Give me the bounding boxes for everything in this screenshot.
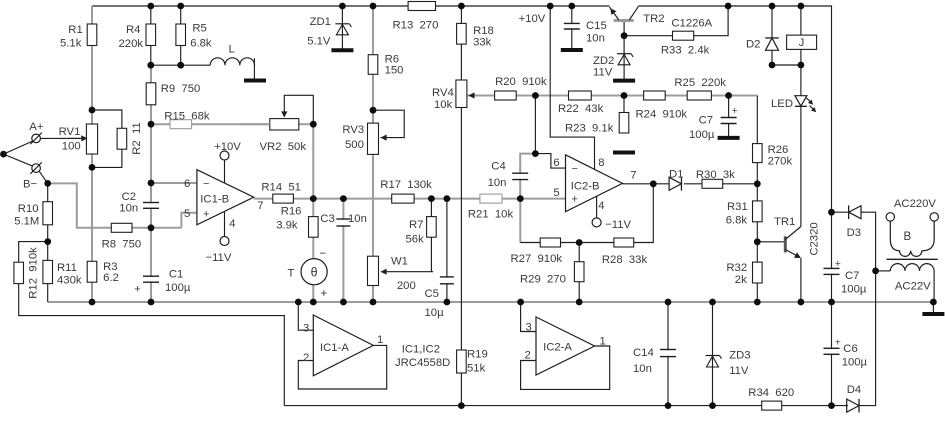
svg-text:33k: 33k bbox=[473, 37, 492, 49]
svg-text:51k: 51k bbox=[467, 363, 486, 375]
svg-text:3: 3 bbox=[526, 322, 532, 334]
resistor R23 bbox=[565, 113, 629, 135]
resistor R2 bbox=[117, 128, 127, 149]
resistor R24 bbox=[636, 91, 688, 121]
svg-text:+: + bbox=[835, 258, 841, 270]
potentiometer W1 bbox=[368, 256, 379, 285]
wire analog ground row bbox=[48, 301, 934, 303]
capacitor C3 bbox=[335, 220, 351, 225]
svg-text:R23 9.1k: R23 9.1k bbox=[565, 123, 614, 135]
wire B- to node bbox=[39, 171, 48, 183]
wire probe B- bbox=[4, 154, 33, 166]
wire D1/R30 row bbox=[684, 183, 702, 185]
svg-text:430k: 430k bbox=[57, 275, 82, 287]
svg-text:A+: A+ bbox=[29, 121, 44, 133]
svg-text:T: T bbox=[288, 268, 295, 280]
resistor R19 bbox=[457, 349, 488, 375]
wire right bus below D3 node bbox=[831, 212, 833, 302]
wire ZD3 stub bbox=[712, 302, 714, 406]
svg-text:C14: C14 bbox=[633, 347, 654, 359]
diode D1 bbox=[669, 177, 681, 190]
potentiometer RV3 bbox=[368, 123, 379, 154]
ground ZD2 bbox=[613, 79, 635, 83]
wire bottom return rail bbox=[284, 405, 848, 407]
resistor R20 bbox=[495, 76, 547, 100]
capacitor C14 bbox=[659, 350, 677, 356]
resistor R8 bbox=[102, 223, 142, 250]
svg-text:2k: 2k bbox=[735, 274, 747, 286]
wire B- to R8 elbow bbox=[48, 183, 151, 227]
svg-text:R34 620: R34 620 bbox=[748, 387, 794, 399]
svg-text:VR2 50k: VR2 50k bbox=[260, 141, 307, 153]
junction D2/J bbox=[769, 62, 776, 69]
potentiometer VR2 bbox=[270, 119, 299, 130]
svg-text:6.8k: 6.8k bbox=[190, 38, 212, 50]
op-amp IC2-A bbox=[536, 317, 595, 375]
resistor R1 bbox=[60, 24, 97, 50]
svg-text:6.8k: 6.8k bbox=[726, 215, 748, 227]
svg-text:10n: 10n bbox=[119, 203, 138, 215]
svg-text:R10: R10 bbox=[18, 203, 39, 215]
svg-text:1: 1 bbox=[377, 334, 383, 346]
svg-text:5.1V: 5.1V bbox=[307, 36, 331, 48]
capacitor C4 bbox=[511, 174, 529, 179]
svg-text:D2: D2 bbox=[746, 39, 760, 51]
terminal A+ bbox=[32, 134, 41, 143]
resistor R14 bbox=[261, 181, 301, 203]
wire pin3 IC1-A bbox=[298, 302, 313, 330]
wire R27/R28 feedback row bbox=[520, 242, 540, 244]
wire VR2 wiper tie bbox=[284, 95, 313, 124]
wire LED to TR1 collector bbox=[800, 107, 802, 227]
svg-text:R18: R18 bbox=[473, 25, 494, 37]
wire R9/C2/C1 rail bbox=[150, 65, 152, 302]
svg-text:AC220V: AC220V bbox=[894, 198, 937, 210]
svg-text:200: 200 bbox=[397, 280, 416, 292]
wire R29 stub bbox=[578, 243, 580, 303]
ground C15 bbox=[561, 48, 583, 52]
wire C5 stub bbox=[446, 199, 448, 302]
svg-text:C2320: C2320 bbox=[809, 222, 821, 255]
svg-text:−11V: −11V bbox=[605, 219, 631, 231]
resistor R29 bbox=[520, 262, 584, 286]
wire C4/R21 riser bbox=[519, 199, 521, 243]
diode D3 bbox=[849, 206, 861, 219]
ground transformer bbox=[922, 312, 944, 316]
svg-text:6: 6 bbox=[553, 157, 559, 169]
svg-text:270k: 270k bbox=[768, 156, 793, 168]
svg-text:B−: B− bbox=[23, 179, 38, 191]
wire R4/R5/L node row bbox=[150, 6, 152, 65]
svg-text:R17 130k: R17 130k bbox=[380, 179, 432, 191]
junction D3 node bbox=[828, 209, 835, 216]
resistor R17 bbox=[380, 179, 432, 203]
svg-text:−: − bbox=[572, 163, 578, 175]
junctions signal row bbox=[310, 195, 317, 202]
resistor R7 bbox=[406, 217, 437, 246]
svg-text:100µ: 100µ bbox=[842, 357, 868, 369]
svg-text:R30 3k: R30 3k bbox=[696, 169, 735, 181]
op-amp IC1-A bbox=[313, 315, 373, 376]
wire R33 row bbox=[624, 35, 672, 37]
wire pin2/feedback IC2-A bbox=[521, 346, 610, 389]
wire right bus C6 column bbox=[831, 302, 833, 406]
svg-text:−: − bbox=[320, 248, 327, 260]
resistor R4 bbox=[119, 24, 156, 50]
wire pin6 row IC1-B bbox=[151, 182, 197, 184]
wire set-point row R20..R25 bbox=[467, 95, 757, 97]
svg-text:R9 750: R9 750 bbox=[161, 83, 201, 95]
svg-text:5: 5 bbox=[553, 187, 559, 199]
svg-text:TR1: TR1 bbox=[774, 216, 795, 228]
svg-text:θ: θ bbox=[311, 266, 318, 280]
svg-text:C7: C7 bbox=[845, 270, 859, 282]
capacitor C1 bbox=[142, 277, 160, 281]
wire TR1 base bbox=[757, 241, 784, 243]
svg-text:+: + bbox=[134, 284, 140, 296]
svg-text:+: + bbox=[732, 105, 738, 117]
transformer core bbox=[887, 258, 938, 260]
resistor R13 bbox=[393, 2, 439, 32]
diode D4 bbox=[847, 399, 859, 412]
diode D2 bbox=[766, 38, 779, 50]
capacitor C7 reference bbox=[720, 118, 738, 122]
svg-text:R25 220k: R25 220k bbox=[674, 77, 726, 89]
wire probe A+ bbox=[4, 141, 33, 154]
svg-text:4: 4 bbox=[598, 200, 604, 212]
svg-text:R4: R4 bbox=[126, 24, 140, 36]
junction pin6 node IC2-B bbox=[532, 150, 539, 157]
svg-text:W1: W1 bbox=[391, 256, 408, 268]
svg-text:R33 2.4k: R33 2.4k bbox=[661, 45, 710, 57]
node TR1 base bbox=[754, 238, 761, 245]
svg-text:R27 910k: R27 910k bbox=[511, 253, 563, 265]
junctions setpoint row bbox=[532, 92, 539, 99]
wire transformer ground stub bbox=[932, 302, 934, 312]
wire R10/R11 column bbox=[47, 183, 49, 302]
wire +10V top rail left segment bbox=[92, 5, 610, 7]
svg-text:C1: C1 bbox=[169, 269, 183, 281]
wire inductor feed + ground drop bbox=[253, 58, 255, 78]
thermistor T bbox=[301, 259, 327, 285]
resistor R30 bbox=[696, 169, 735, 188]
svg-text:ZD1: ZD1 bbox=[310, 16, 331, 28]
resistor R15 bbox=[164, 111, 210, 129]
svg-text:ZD2: ZD2 bbox=[593, 55, 614, 67]
svg-text:IC1-A: IC1-A bbox=[320, 342, 349, 354]
capacitor C6 bbox=[823, 349, 841, 353]
svg-text:7: 7 bbox=[257, 200, 263, 212]
wire R2 parallel loop bbox=[92, 110, 122, 167]
svg-text:5: 5 bbox=[184, 208, 190, 220]
potentiometer RV1 bbox=[86, 124, 97, 154]
svg-text:2: 2 bbox=[525, 350, 531, 362]
svg-text:3.9k: 3.9k bbox=[276, 219, 298, 231]
svg-text:R28 33k: R28 33k bbox=[602, 254, 648, 266]
power -11V IC2-B bbox=[596, 196, 598, 218]
ground ZD1 bbox=[331, 48, 353, 52]
svg-text:10n: 10n bbox=[488, 177, 507, 189]
resistor R9 bbox=[146, 83, 200, 105]
transformer B secondary bbox=[876, 270, 891, 272]
svg-text:R26: R26 bbox=[768, 144, 789, 156]
svg-text:11V: 11V bbox=[593, 67, 613, 79]
resistor R33 bbox=[661, 31, 710, 56]
wire R12 branch bbox=[19, 242, 285, 406]
svg-text:R13 270: R13 270 bbox=[393, 20, 439, 32]
junction VR2 out bbox=[310, 121, 317, 128]
transformer B primary bbox=[890, 221, 934, 257]
resistor R28 bbox=[602, 238, 648, 266]
wire VR2 out rail bbox=[312, 124, 314, 302]
svg-text:2: 2 bbox=[303, 352, 309, 364]
wire R23 stub bbox=[623, 96, 625, 113]
svg-text:D1: D1 bbox=[669, 169, 683, 181]
svg-text:C7: C7 bbox=[699, 115, 713, 127]
zener ZD3 bbox=[706, 355, 720, 357]
node TR2 base bbox=[621, 32, 628, 39]
svg-text:56k: 56k bbox=[406, 234, 425, 246]
relay J bbox=[787, 35, 817, 49]
wire D2 branch bbox=[771, 6, 773, 38]
wire pin5 elbow IC1-B bbox=[151, 227, 181, 229]
svg-text:8: 8 bbox=[598, 157, 604, 169]
svg-text:6.2: 6.2 bbox=[103, 272, 119, 284]
wire TR2 base stub bbox=[623, 21, 625, 36]
svg-text:TR2: TR2 bbox=[643, 13, 664, 25]
wire C15 stub bbox=[571, 6, 573, 23]
junction transformer tap bbox=[872, 268, 879, 275]
svg-text:100µ: 100µ bbox=[689, 129, 715, 141]
resistor R27 bbox=[511, 238, 563, 265]
svg-text:D3: D3 bbox=[847, 227, 861, 239]
svg-text:R16: R16 bbox=[281, 206, 302, 218]
svg-text:100µ: 100µ bbox=[165, 282, 191, 294]
wire A+ to RV1 wiper bbox=[40, 137, 81, 139]
svg-text:AC22V: AC22V bbox=[895, 281, 931, 293]
wire C4 stub bbox=[520, 154, 535, 199]
svg-text:R31: R31 bbox=[727, 201, 748, 213]
svg-text:R29 270: R29 270 bbox=[520, 274, 566, 286]
svg-text:1: 1 bbox=[600, 336, 606, 348]
svg-text:+: + bbox=[203, 209, 209, 221]
svg-text:10n: 10n bbox=[348, 213, 367, 225]
wire D4 to transformer bbox=[859, 271, 875, 406]
wire C7 stub bbox=[728, 96, 730, 118]
resistor R18 bbox=[457, 23, 494, 48]
resistor R5 bbox=[176, 23, 212, 50]
svg-text:10k: 10k bbox=[434, 99, 453, 111]
svg-text:R20 910k: R20 910k bbox=[495, 76, 547, 88]
resistor R11 bbox=[43, 260, 82, 286]
svg-text:L: L bbox=[229, 44, 235, 56]
svg-text:10n: 10n bbox=[633, 363, 652, 375]
wire signal row IC1-B out bbox=[254, 198, 566, 200]
svg-text:R12 910k: R12 910k bbox=[28, 247, 40, 299]
svg-text:R8 750: R8 750 bbox=[102, 239, 142, 251]
wire IC2-B output row bbox=[622, 183, 668, 185]
junction D1/R30 out bbox=[754, 180, 761, 187]
svg-text:500: 500 bbox=[345, 139, 364, 151]
svg-text:D4: D4 bbox=[847, 384, 861, 396]
svg-text:−11V: −11V bbox=[206, 252, 232, 264]
node A+/B- common bbox=[0, 151, 7, 158]
svg-text:+: + bbox=[572, 194, 578, 206]
svg-text:IC1,IC2: IC1,IC2 bbox=[402, 344, 440, 356]
op-amp IC1-B bbox=[197, 170, 254, 225]
wire pin3 IC2-A bbox=[521, 302, 536, 332]
terminal B- bbox=[32, 164, 41, 173]
resistor R10 bbox=[14, 202, 52, 228]
svg-text:C4: C4 bbox=[491, 161, 505, 173]
wire R31/R32 column bbox=[756, 184, 758, 302]
svg-text:150: 150 bbox=[385, 65, 404, 77]
inductor L bbox=[210, 58, 254, 65]
wire C3 stub bbox=[342, 199, 344, 302]
svg-text:+10V: +10V bbox=[519, 13, 546, 25]
svg-text:3: 3 bbox=[303, 323, 309, 335]
svg-text:B: B bbox=[903, 231, 911, 243]
svg-text:J: J bbox=[799, 37, 805, 49]
resistor R3 bbox=[87, 261, 119, 284]
svg-text:6: 6 bbox=[184, 178, 190, 190]
svg-text:R32: R32 bbox=[726, 262, 747, 274]
junctions RV1 rail bbox=[89, 107, 96, 114]
svg-text:R14 51: R14 51 bbox=[261, 181, 301, 193]
wire C14 stub bbox=[667, 302, 669, 406]
svg-text:IC1-B: IC1-B bbox=[200, 194, 229, 206]
svg-text:C15: C15 bbox=[586, 20, 607, 32]
potentiometer RV4 bbox=[456, 80, 467, 108]
junctions row 65 bbox=[147, 62, 154, 69]
svg-text:5.1M: 5.1M bbox=[14, 216, 39, 228]
junctions ground row bbox=[89, 299, 96, 306]
junctions top rail bbox=[147, 3, 154, 10]
wire TR1 emitter drop bbox=[800, 258, 802, 302]
svg-text:11V: 11V bbox=[729, 365, 749, 377]
resistor R16 bbox=[276, 206, 318, 238]
resistor R6 bbox=[368, 54, 403, 77]
wire feedback row R15/VR2 bbox=[151, 123, 313, 125]
svg-text:R1: R1 bbox=[68, 24, 82, 36]
resistor R12 bbox=[14, 262, 24, 283]
svg-text:C1226A: C1226A bbox=[671, 18, 712, 30]
resistor R34 bbox=[748, 387, 794, 410]
svg-text:RV4: RV4 bbox=[432, 87, 454, 99]
zener ZD1 bbox=[341, 6, 343, 49]
wire pin2/feedback IC1-A bbox=[298, 345, 386, 389]
wire W1 wiper to R7 bbox=[381, 199, 433, 272]
svg-text:IC2-A: IC2-A bbox=[543, 342, 572, 354]
svg-text:R19: R19 bbox=[467, 349, 488, 361]
svg-text:−: − bbox=[203, 178, 209, 190]
svg-text:R5: R5 bbox=[192, 23, 206, 35]
wire RV3 wiper tie bbox=[373, 110, 404, 137]
svg-text:4: 4 bbox=[229, 218, 235, 230]
wire D3 anode stub bbox=[832, 211, 849, 213]
svg-text:R21 10k: R21 10k bbox=[468, 209, 514, 221]
svg-text:R22 43k: R22 43k bbox=[558, 103, 604, 115]
junction RV3 top bbox=[370, 107, 377, 114]
wire R22 junction to pin6 node bbox=[534, 96, 536, 154]
svg-text:+: + bbox=[835, 336, 841, 348]
resistor R21 bbox=[468, 194, 514, 220]
svg-text:+: + bbox=[321, 288, 328, 300]
svg-text:7: 7 bbox=[630, 170, 636, 182]
svg-text:R15 68k: R15 68k bbox=[164, 111, 210, 123]
wire pin8 riser IC2-B bbox=[550, 6, 594, 169]
transistor TR1 bbox=[784, 236, 787, 252]
svg-text:+10V: +10V bbox=[214, 141, 241, 153]
svg-text:IC2-B: IC2-B bbox=[571, 181, 600, 193]
power +10V IC1-B bbox=[224, 160, 226, 183]
zener ZD2 bbox=[623, 36, 625, 79]
junction IC2-B out bbox=[650, 180, 657, 187]
power -11V IC1-B bbox=[224, 211, 226, 236]
svg-text:10µ: 10µ bbox=[425, 307, 445, 319]
resistor R26 bbox=[753, 144, 793, 168]
ground after L bbox=[244, 79, 266, 83]
svg-text:ZD3: ZD3 bbox=[729, 350, 750, 362]
node R10/R11/R12 bbox=[44, 238, 51, 245]
wire +10V top rail right segment bbox=[638, 6, 831, 212]
svg-text:R7: R7 bbox=[409, 219, 423, 231]
svg-text:10n: 10n bbox=[586, 33, 605, 45]
svg-text:C5: C5 bbox=[425, 288, 439, 300]
ground C7 bbox=[718, 136, 740, 140]
svg-text:C3: C3 bbox=[320, 213, 334, 225]
op-amp IC2-B bbox=[566, 155, 623, 212]
junction R29 bbox=[576, 239, 583, 246]
wire R6/RV3/W1 rail bbox=[372, 6, 374, 302]
svg-text:100: 100 bbox=[62, 141, 81, 153]
svg-text:C6: C6 bbox=[843, 343, 857, 355]
wire relay J branch bbox=[800, 6, 802, 35]
transistor TR2 bbox=[614, 19, 634, 22]
junctions input node bbox=[44, 180, 51, 187]
svg-text:C2: C2 bbox=[122, 191, 136, 203]
wire pin6 elbow IC2-B bbox=[535, 154, 565, 169]
capacitor C15 bbox=[563, 24, 581, 28]
svg-text:R2 11: R2 11 bbox=[131, 122, 143, 154]
capacitor C7 filter bbox=[823, 269, 841, 273]
svg-text:LED: LED bbox=[771, 98, 793, 110]
junctions C2 rail bbox=[148, 121, 155, 128]
svg-text:R11: R11 bbox=[57, 262, 77, 274]
svg-text:R24 910k: R24 910k bbox=[636, 109, 688, 121]
LED bbox=[795, 96, 807, 106]
svg-text:5.1k: 5.1k bbox=[60, 38, 82, 50]
resistor R22 bbox=[558, 91, 604, 115]
resistor R25 bbox=[674, 77, 726, 100]
svg-text:100µ: 100µ bbox=[841, 284, 867, 296]
junctions bottom rail bbox=[458, 402, 465, 409]
svg-text:220k: 220k bbox=[119, 38, 144, 50]
resistor R32 bbox=[726, 262, 762, 286]
wire R26 column bbox=[756, 96, 758, 184]
wire D3 to transformer bbox=[861, 212, 876, 271]
svg-text:JRC4558D: JRC4558D bbox=[395, 357, 450, 369]
svg-text:RV3: RV3 bbox=[342, 124, 364, 136]
wire R18/RV4/R19 rail bbox=[460, 6, 462, 406]
ground R23 bbox=[613, 151, 635, 155]
capacitor C2 bbox=[142, 203, 160, 207]
wire R1/RV1/R3 rail bbox=[91, 6, 93, 302]
svg-text:RV1: RV1 bbox=[59, 126, 81, 138]
resistor R31 bbox=[726, 201, 762, 227]
capacitor C5 bbox=[439, 278, 455, 283]
